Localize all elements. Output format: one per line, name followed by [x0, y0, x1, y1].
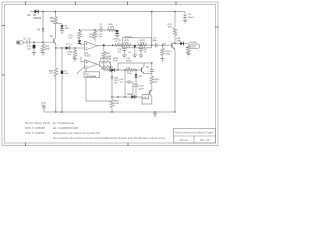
svg-text:4700u: 4700u — [126, 59, 132, 62]
svg-text:1.00M: 1.00M — [108, 27, 114, 29]
svg-text:560R: 560R — [140, 42, 145, 44]
svg-text:TR3: TR3 — [146, 67, 149, 69]
svg-text:OUT: OUT — [192, 46, 197, 48]
svg-text:1N4...: 1N4... — [138, 75, 144, 78]
svg-text:1.5n: 1.5n — [128, 52, 132, 54]
svg-text:E= Tantal/Facetat: E= Tantal/Facetat — [53, 121, 74, 125]
svg-text:C1 .1u: C1 .1u — [24, 39, 31, 41]
svg-text:PNP: Tr 2N5086: PNP: Tr 2N5086 — [25, 131, 45, 135]
svg-text:TR2: TR2 — [163, 43, 167, 45]
svg-text:LED: LED — [65, 28, 70, 30]
svg-text:CA3080EM: CA3080EM — [85, 75, 96, 78]
svg-text:NPN: Tr 2N5088: NPN: Tr 2N5088 — [25, 126, 45, 130]
svg-text:D1-D4: Silicon Diode: D1-D4: Silicon Diode — [25, 121, 50, 125]
svg-text:(R10) 1k: (R10) 1k — [125, 36, 134, 38]
svg-text:4148: 4148 — [177, 40, 181, 43]
svg-text:100n: 100n — [127, 73, 132, 75]
svg-text:4u: 4u — [118, 41, 120, 44]
svg-text:TL072: TL072 — [84, 56, 91, 58]
svg-text:ElectroHarmonix Black Finger: ElectroHarmonix Black Finger — [175, 131, 213, 135]
svg-text:+9V: +9V — [27, 15, 32, 17]
svg-text:all Capacitors are Ceramic exc: all Capacitors are Ceramic except C9+C10… — [53, 136, 165, 140]
svg-text:10n: 10n — [144, 51, 147, 53]
svg-text:1N4001: 1N4001 — [33, 17, 42, 20]
svg-text:VR2 10k: VR2 10k — [189, 42, 197, 44]
svg-text:(R8): (R8) — [106, 53, 110, 55]
svg-text:(R9): (R9) — [109, 24, 114, 26]
svg-text:+10u: +10u — [64, 73, 70, 75]
svg-text:2.2uF: 2.2uF — [139, 88, 145, 90]
svg-text:Almuta: Almuta — [180, 138, 189, 142]
svg-text:Rev. '02: Rev. '02 — [200, 138, 210, 142]
svg-text:4.7M: 4.7M — [166, 53, 171, 56]
svg-text:4.7M: 4.7M — [113, 59, 118, 62]
svg-text:all Resistors are Carbon Compo: all Resistors are Carbon Composite 5% — [53, 131, 101, 135]
svg-text:2.2M: 2.2M — [114, 103, 119, 105]
svg-text:+10u: +10u — [26, 49, 32, 51]
svg-text:E2: CA3080/MC3080: E2: CA3080/MC3080 — [53, 126, 79, 130]
svg-text:(R14) 470k: (R14) 470k — [100, 57, 111, 60]
svg-text:WIMA: WIMA — [127, 93, 133, 96]
svg-text:D7 1u: D7 1u — [66, 44, 72, 46]
svg-text:100uF: 100uF — [188, 17, 195, 19]
svg-text:47R: 47R — [168, 25, 172, 28]
